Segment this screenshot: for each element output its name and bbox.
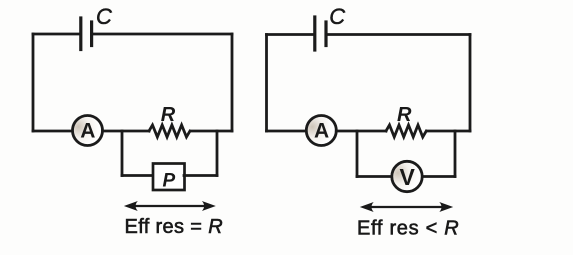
wire: right side vertical (left circuit) [231, 34, 234, 131]
wire: bottom-left to ammeter [33, 130, 73, 133]
resistor R (left circuit) [149, 125, 190, 137]
wire: left side vertical (right circuit) [265, 35, 268, 132]
wire: top-left segment to capacitor (right circuit) [267, 33, 314, 36]
wire: parallel branch left vertical (right circuit) [356, 131, 359, 177]
wire: box P to branch right [184, 174, 217, 177]
wire: resistor to right corner (right circuit) [427, 130, 470, 133]
svg-text:Eff res < R: Eff res < R [357, 218, 459, 240]
ammeter A (left circuit) [73, 116, 103, 146]
svg-text:C: C [96, 4, 112, 29]
wire: right side vertical (right circuit) [469, 35, 472, 132]
double arrow (right circuit) [360, 202, 453, 212]
wire: left side vertical (left circuit) [32, 34, 35, 131]
wire: top-right segment from capacitor [93, 33, 232, 36]
wire: resistor to right corner (left circuit) [191, 130, 232, 133]
svg-text:P: P [163, 170, 176, 191]
double arrow (left circuit) [124, 201, 216, 211]
wire: branch bottom-left to voltmeter [357, 175, 393, 178]
svg-text:R: R [397, 104, 412, 126]
svg-text:Eff res = R: Eff res = R [125, 216, 224, 238]
wire: parallel branch right vertical (right circuit) [454, 131, 457, 177]
wire: bottom-left to ammeter (right circuit) [267, 130, 308, 133]
wire: ammeter to node (right circuit) [336, 130, 386, 133]
wire: parallel branch right vertical (left circuit) [216, 131, 219, 176]
box P (device in parallel, left circuit) [153, 164, 185, 191]
resistor R (right circuit) [386, 125, 426, 137]
wire: top-right segment from capacitor (right circuit) [327, 33, 470, 36]
wire: voltmeter to branch right [423, 175, 456, 178]
wire: parallel branch left vertical (left circuit) [121, 131, 124, 176]
svg-text:A: A [314, 119, 329, 142]
ammeter A (right circuit) [306, 116, 336, 146]
wire: top-left segment to capacitor [33, 33, 80, 36]
voltmeter V (right circuit) [392, 161, 422, 191]
wire: branch bottom-left to box P [122, 174, 152, 177]
svg-text:R: R [161, 104, 176, 126]
capacitor C (left circuit) [81, 18, 92, 50]
wire: ammeter to node (left circuit) [103, 130, 150, 133]
svg-text:A: A [80, 119, 95, 142]
capacitor C (right circuit) [315, 17, 326, 50]
svg-text:V: V [400, 164, 416, 190]
svg-text:C: C [329, 4, 345, 29]
